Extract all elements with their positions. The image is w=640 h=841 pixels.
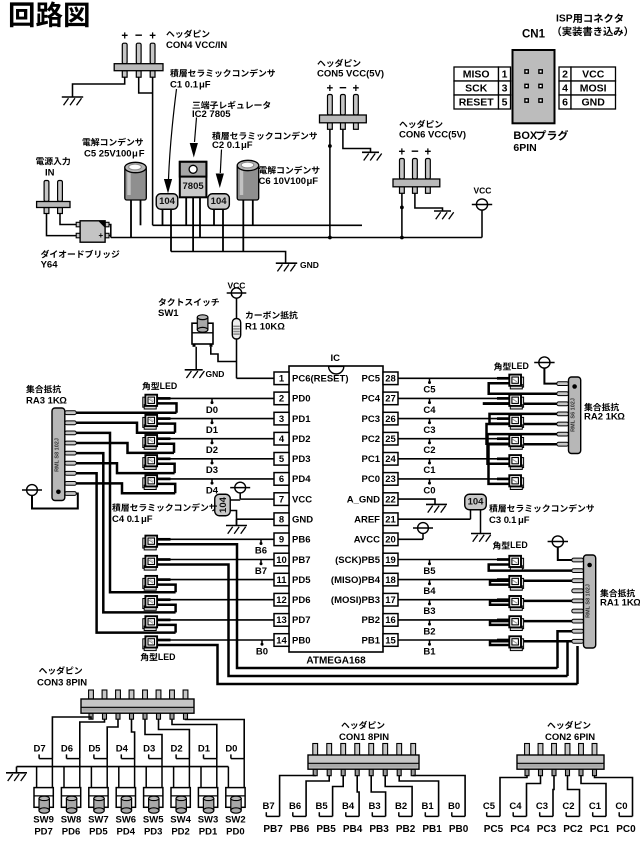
svg-text:RA2 1K: RA2 1K [584,412,618,423]
svg-text:PB7: PB7 [263,824,283,835]
svg-text:B0: B0 [448,801,460,812]
svg-text:C2: C2 [423,445,435,456]
svg-text:Ω: Ω [617,412,625,423]
svg-text:5: 5 [279,454,285,465]
svg-text:CON3 8PIN: CON3 8PIN [37,677,87,688]
svg-text:19: 19 [385,555,396,566]
svg-text:CON1 8PIN: CON1 8PIN [339,732,389,743]
svg-text:PD2: PD2 [171,827,189,838]
svg-text:B6: B6 [289,801,301,812]
svg-text:104: 104 [218,496,229,513]
svg-text:ATMEGA168: ATMEGA168 [306,656,366,667]
svg-text:PD4: PD4 [117,827,136,838]
svg-text:C5: C5 [483,801,496,812]
svg-text:B6: B6 [255,546,267,557]
svg-text:C5 25V100: C5 25V100 [84,149,132,160]
svg-text:CON2 6PIN: CON2 6PIN [545,732,595,743]
svg-text:7805: 7805 [183,181,205,192]
svg-text:6PIN: 6PIN [513,142,536,154]
svg-text:C6 10V100: C6 10V100 [259,176,307,187]
svg-text:LED: LED [160,381,178,391]
svg-text:MISO: MISO [463,69,490,81]
svg-text:PC0: PC0 [362,474,380,485]
svg-text:PD1: PD1 [199,827,218,838]
svg-text:D5: D5 [88,743,101,754]
svg-text:28: 28 [385,374,396,385]
svg-text:4: 4 [279,434,285,445]
svg-text:SW6: SW6 [116,814,137,825]
svg-text:C0: C0 [615,801,627,812]
svg-text:PD3: PD3 [144,827,162,838]
svg-text:24: 24 [385,454,396,465]
svg-text:D7: D7 [34,743,46,754]
svg-text:PD4: PD4 [292,474,311,485]
svg-text:D0: D0 [206,405,218,416]
svg-text:+: + [327,83,334,95]
svg-text:PB2: PB2 [396,824,416,835]
svg-text:AREF: AREF [354,515,380,526]
svg-text:B4: B4 [423,586,436,597]
svg-text:μF: μF [518,515,530,526]
svg-text:R1 10K: R1 10K [245,322,277,333]
svg-text:D2: D2 [206,445,218,456]
svg-text:20: 20 [385,535,396,546]
svg-text:17: 17 [385,595,396,606]
svg-text:D1: D1 [206,425,219,436]
svg-text:D0: D0 [225,743,237,754]
svg-text:D2: D2 [171,743,183,754]
svg-text:14: 14 [276,635,287,646]
svg-text:B0: B0 [256,646,268,657]
svg-text:+: + [425,147,432,159]
svg-text:SW3: SW3 [198,814,219,825]
svg-text:B2: B2 [423,626,435,637]
svg-text:PC5: PC5 [362,374,381,385]
svg-text:PC1: PC1 [362,454,381,465]
svg-text:AVCC: AVCC [354,535,380,546]
svg-text:RML S8 102J: RML S8 102J [586,584,592,618]
svg-text:B2: B2 [395,801,407,812]
svg-text:PC2: PC2 [563,824,583,835]
svg-text:VCC: VCC [582,69,605,81]
svg-text:.1: .1 [509,515,518,526]
svg-text:PD7: PD7 [292,615,310,626]
svg-text:2: 2 [279,394,284,405]
svg-text:D6: D6 [61,743,73,754]
svg-text:CON6 VCC(5V): CON6 VCC(5V) [399,130,466,141]
svg-text:−: − [135,27,143,42]
svg-text:μ: μ [132,149,138,160]
svg-text:B3: B3 [369,801,381,812]
svg-text:RA3 1K: RA3 1K [26,396,60,407]
svg-text:27: 27 [385,394,396,405]
svg-text:PD3: PD3 [292,454,310,465]
svg-text:PB0: PB0 [449,824,469,835]
svg-text:C1: C1 [589,801,602,812]
svg-text:C5: C5 [423,385,436,396]
svg-text:CON5 VCC(5V): CON5 VCC(5V) [317,69,384,80]
svg-text:PD2: PD2 [292,434,310,445]
svg-text:RA1 1K: RA1 1K [600,598,634,609]
svg-text:Ω: Ω [633,598,640,609]
svg-text:μF: μF [141,514,153,525]
svg-text:PC2: PC2 [362,434,380,445]
svg-text:B1: B1 [422,801,435,812]
svg-text:PC6(RESET): PC6(RESET) [292,374,348,385]
svg-text:PD6: PD6 [292,595,310,606]
svg-text:B4: B4 [342,801,355,812]
svg-text:IC: IC [331,353,341,364]
svg-text:PB3: PB3 [369,824,389,835]
svg-text:104: 104 [159,196,176,207]
svg-text:104: 104 [468,496,485,507]
svg-text:26: 26 [385,414,396,425]
svg-text:B3: B3 [423,606,435,617]
svg-text:PB7: PB7 [292,555,310,566]
svg-text:IN: IN [45,168,55,179]
svg-text:6: 6 [279,474,284,485]
svg-text:PB4: PB4 [343,824,363,835]
svg-text:GND: GND [582,97,606,109]
svg-text:PB5: PB5 [316,824,336,835]
svg-text:1: 1 [502,69,508,81]
svg-text:RML S8 102J: RML S8 102J [54,438,60,472]
svg-text:C2 0.1: C2 0.1 [212,140,241,151]
svg-text:9: 9 [279,535,284,546]
svg-text:PC0: PC0 [616,824,636,835]
svg-text:(MISO)PB4: (MISO)PB4 [331,575,381,586]
svg-text:RML S6 102J: RML S6 102J [571,398,577,432]
svg-text:B5: B5 [423,566,436,577]
svg-text:11: 11 [276,575,287,586]
svg-text:SW2: SW2 [225,814,246,825]
svg-text:3: 3 [502,83,508,95]
svg-text:25: 25 [385,434,396,445]
svg-text:PB1: PB1 [422,824,442,835]
svg-text:+: + [99,231,104,240]
svg-text:LED: LED [510,540,528,550]
svg-text:C2: C2 [562,801,574,812]
svg-text:LED: LED [511,361,529,371]
svg-text:D1: D1 [198,743,211,754]
svg-text:PD6: PD6 [62,827,80,838]
svg-text:ISP: ISP [556,13,573,24]
svg-text:PB6: PB6 [290,824,310,835]
svg-text:PB6: PB6 [292,535,310,546]
svg-text:PB1: PB1 [362,635,381,646]
svg-text:PD1: PD1 [292,414,311,425]
svg-text:Y64: Y64 [41,260,59,271]
svg-text:MOSI: MOSI [580,83,607,95]
svg-text:B7: B7 [255,566,267,577]
svg-text:B7: B7 [263,801,275,812]
svg-text:PD0: PD0 [292,394,310,405]
svg-text:PC3: PC3 [362,414,380,425]
svg-text:+: + [399,147,406,159]
svg-text:C3: C3 [536,801,548,812]
svg-text:PD5: PD5 [89,827,108,838]
svg-text:B1: B1 [423,646,436,657]
svg-text:C3 0: C3 0 [489,515,509,526]
svg-text:PC3: PC3 [537,824,557,835]
svg-text:GND: GND [292,515,313,526]
svg-text:PB2: PB2 [362,615,380,626]
svg-text:D3: D3 [143,743,155,754]
svg-text:CN1: CN1 [522,29,546,41]
svg-text:SW5: SW5 [143,814,164,825]
svg-text:μF: μF [307,176,319,187]
svg-text:18: 18 [385,575,396,586]
svg-text:LED: LED [158,652,176,662]
svg-text:C4: C4 [509,801,522,812]
svg-text:SW8: SW8 [61,814,82,825]
svg-text:Ω: Ω [277,322,285,333]
svg-text:B5: B5 [316,801,329,812]
svg-text:6: 6 [562,97,568,109]
svg-text:SCK: SCK [465,83,488,95]
svg-text:23: 23 [385,474,396,485]
svg-text:+: + [121,31,128,43]
svg-text:+: + [149,31,156,43]
svg-text:7: 7 [279,494,284,505]
svg-text:PD5: PD5 [292,575,311,586]
svg-text:PC1: PC1 [590,824,610,835]
svg-text:RESET: RESET [459,97,495,109]
svg-text:SW7: SW7 [88,814,109,825]
svg-text:16: 16 [385,615,396,626]
svg-text:F: F [139,149,145,160]
svg-text:2: 2 [562,69,568,81]
svg-text:C4: C4 [423,405,436,416]
svg-text:VCC: VCC [474,186,492,196]
svg-text:(SCK)PB5: (SCK)PB5 [335,555,381,566]
svg-text:C1 0.1: C1 0.1 [170,80,199,91]
svg-text:CON4 VCC/IN: CON4 VCC/IN [166,40,227,51]
svg-text:PD0: PD0 [226,827,244,838]
svg-text:PC4: PC4 [510,824,530,835]
svg-text:15: 15 [385,635,396,646]
svg-text:4: 4 [562,83,568,95]
svg-text:1: 1 [279,374,285,385]
svg-text:SW9: SW9 [33,814,54,825]
svg-text:(MOSI)PB3: (MOSI)PB3 [331,595,380,606]
svg-text:μF: μF [241,140,253,151]
svg-text:Ω: Ω [59,396,67,407]
svg-text:IC2 7805: IC2 7805 [192,109,231,120]
svg-text:21: 21 [385,515,396,526]
svg-text:D4: D4 [116,743,129,754]
svg-text:GND: GND [300,260,319,270]
svg-text:104: 104 [211,196,228,207]
svg-text:−: − [339,80,347,95]
svg-text:SW1: SW1 [158,308,179,319]
svg-text:VCC: VCC [292,494,312,505]
svg-text:PC5: PC5 [484,824,504,835]
svg-text:GND: GND [206,369,225,379]
svg-text:C1: C1 [423,465,436,476]
svg-text:8: 8 [279,515,284,526]
svg-text:+: + [353,83,360,95]
svg-text:12: 12 [276,595,287,606]
svg-text:D3: D3 [206,465,218,476]
svg-text:PB0: PB0 [292,635,310,646]
svg-text:C3: C3 [423,425,435,436]
svg-text:A_GND: A_GND [347,494,380,505]
svg-text:PD7: PD7 [34,827,52,838]
svg-text:.1: .1 [132,514,141,525]
svg-text:22: 22 [385,494,396,505]
svg-text:PC4: PC4 [362,394,381,405]
svg-text:SW4: SW4 [170,814,191,825]
svg-text:C0: C0 [423,485,435,496]
svg-text:C4 0: C4 0 [112,514,132,525]
svg-text:−: − [411,143,419,158]
svg-text:10: 10 [276,555,287,566]
svg-text:3: 3 [279,414,284,425]
svg-text:13: 13 [276,615,287,626]
svg-text:μF: μF [199,80,211,91]
svg-text:BOX: BOX [513,130,538,142]
svg-text:5: 5 [502,97,508,109]
